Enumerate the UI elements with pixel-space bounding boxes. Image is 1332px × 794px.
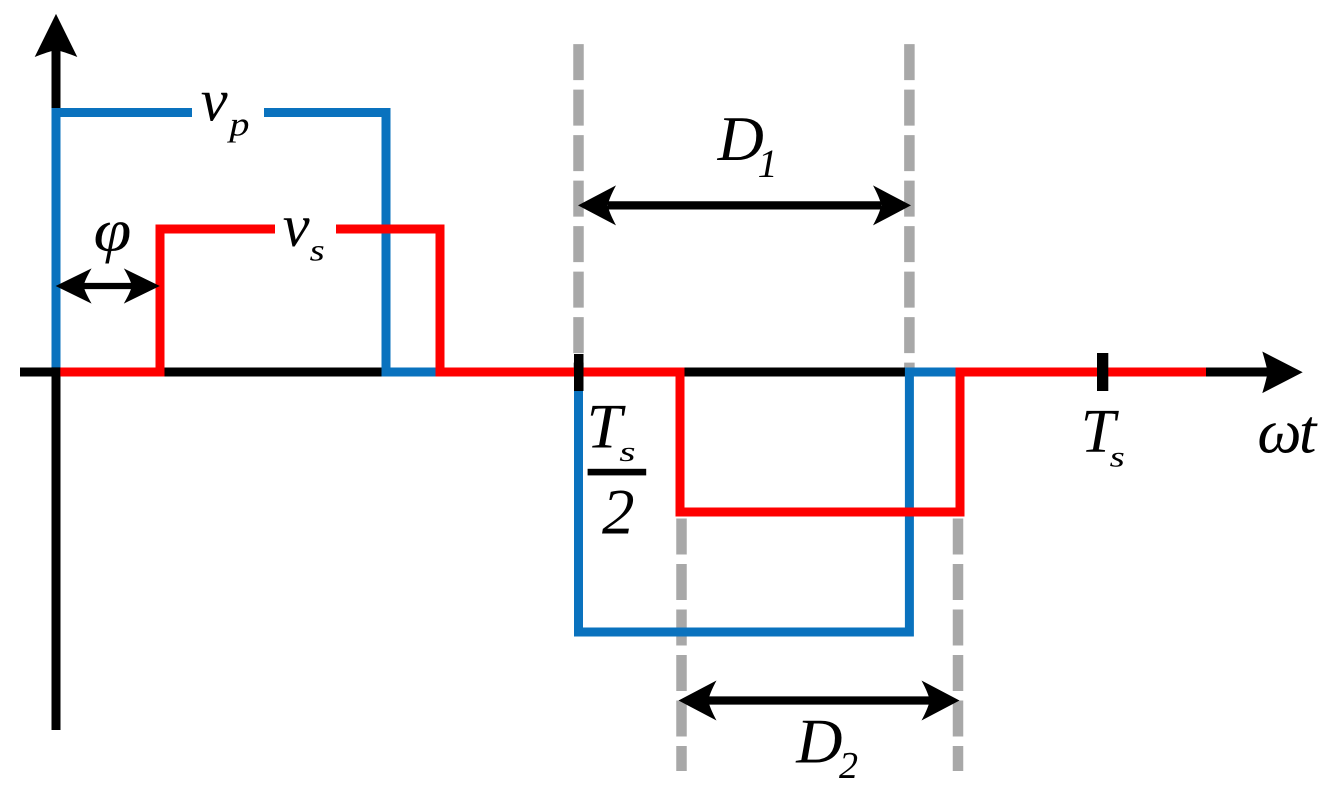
svg-text:D: D — [795, 706, 842, 777]
svg-text:φ: φ — [94, 198, 132, 264]
svg-text:v: v — [201, 68, 228, 135]
svg-text:s: s — [310, 233, 325, 267]
svg-text:s: s — [1110, 440, 1125, 474]
svg-text:v: v — [283, 193, 310, 260]
svg-text:1: 1 — [758, 141, 778, 186]
svg-text:2: 2 — [602, 477, 635, 549]
svg-text:s: s — [619, 436, 635, 467]
svg-text:ωt: ωt — [1257, 397, 1318, 467]
svg-text:p: p — [226, 107, 249, 144]
svg-text:2: 2 — [839, 745, 858, 787]
